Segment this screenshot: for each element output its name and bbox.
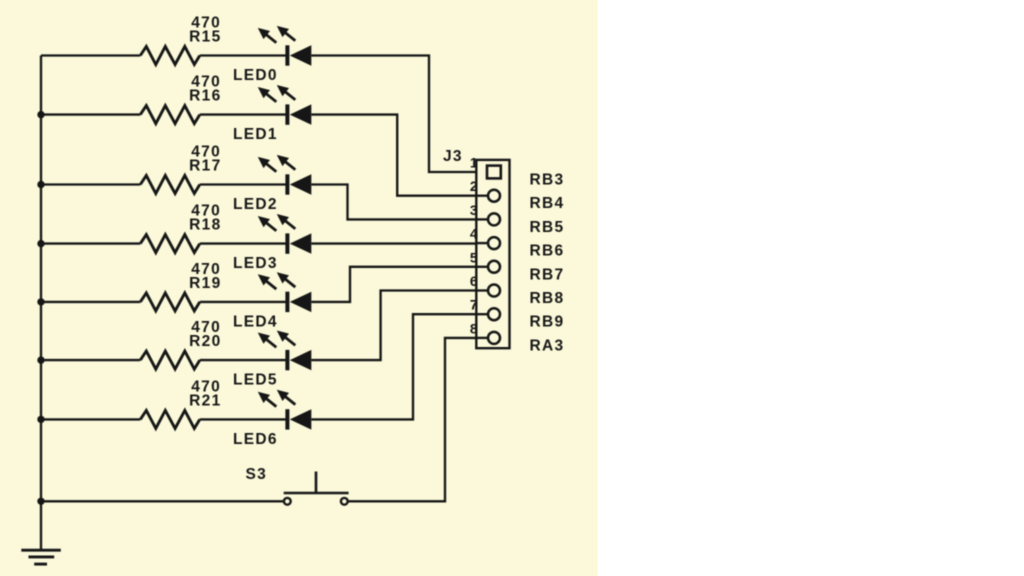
- junction dot row 3: [37, 181, 44, 188]
- wire: bus to R21 (row 7): [41, 418, 140, 420]
- wire stub pin 3: [476, 218, 488, 220]
- resistor R17: [140, 176, 200, 194]
- J3 pin 7 (round pad): [488, 308, 500, 320]
- svg-text:2: 2: [470, 178, 479, 194]
- wire: bus to switch S3: [41, 500, 283, 502]
- svg-text:LED6: LED6: [233, 431, 278, 448]
- junction dot switch row: [37, 498, 44, 505]
- svg-text:RB5: RB5: [530, 219, 565, 236]
- svg-text:LED4: LED4: [233, 313, 278, 330]
- J3 pin 2 (round pad): [488, 190, 500, 202]
- resistor R15: [140, 47, 200, 65]
- wire: S3 to J3 pin 8: [348, 338, 477, 501]
- svg-text:RB9: RB9: [530, 314, 565, 331]
- wire: R21 to LED6: [200, 418, 288, 420]
- svg-text:R18: R18: [189, 217, 221, 234]
- wire: LED6 to J3 pin 7: [311, 314, 476, 419]
- LED LED2: [285, 174, 289, 194]
- wire: left vertical bus: [40, 56, 42, 551]
- wire: R19 to LED4: [200, 301, 288, 303]
- wire: LED5 to J3 pin 6: [311, 291, 476, 361]
- svg-text:1: 1: [470, 155, 479, 171]
- LED LED5: [285, 350, 289, 370]
- wire: LED4 to J3 pin 5: [311, 267, 476, 302]
- svg-text:LED5: LED5: [233, 372, 278, 389]
- junction dot row 4: [37, 240, 44, 247]
- LED LED0: [285, 45, 289, 65]
- LED LED3: [285, 233, 289, 253]
- svg-text:RB8: RB8: [530, 290, 565, 307]
- wire: bus to R16 (row 2): [41, 113, 140, 115]
- svg-text:RA3: RA3: [530, 337, 565, 354]
- wire: R18 to LED3: [200, 242, 288, 244]
- wire: LED3 to J3 pin 4: [311, 242, 476, 244]
- LED LED6: [285, 409, 289, 429]
- wire: bus to R19 (row 5): [41, 301, 140, 303]
- J3 pin 1 (square pad): [487, 166, 501, 179]
- svg-text:7: 7: [470, 297, 479, 313]
- svg-text:LED3: LED3: [233, 255, 278, 272]
- wire: bus to R17 (row 3): [41, 183, 140, 185]
- wire stub pin 4: [476, 242, 488, 244]
- schematic sheet background: [0, 0, 598, 576]
- wire: R17 to LED2: [200, 183, 288, 185]
- svg-text:R21: R21: [189, 392, 221, 409]
- resistor R19: [140, 293, 200, 311]
- wire: R20 to LED5: [200, 359, 288, 361]
- svg-text:J3: J3: [443, 148, 463, 165]
- J3 pin 4 (round pad): [488, 237, 500, 249]
- resistor R20: [140, 351, 200, 369]
- junction dot row 2: [37, 111, 44, 118]
- svg-text:LED0: LED0: [233, 67, 278, 84]
- junction dot row 6: [37, 356, 44, 363]
- svg-text:R16: R16: [189, 88, 221, 105]
- svg-text:3: 3: [470, 202, 479, 218]
- svg-text:5: 5: [470, 249, 479, 265]
- wire: R16 to LED1: [200, 113, 288, 115]
- resistor R18: [140, 235, 200, 253]
- J3 pin 8 (round pad): [488, 332, 500, 344]
- wire: LED2 to J3 pin 3: [311, 185, 476, 220]
- LED LED1: [285, 104, 289, 124]
- ground symbol: [21, 549, 61, 552]
- wire stub pin 2: [476, 195, 488, 197]
- svg-text:RB3: RB3: [530, 172, 565, 189]
- resistor R21: [140, 410, 200, 428]
- svg-text:RB4: RB4: [530, 195, 565, 212]
- J3 pin 3 (round pad): [488, 213, 500, 225]
- svg-text:LED1: LED1: [233, 126, 278, 143]
- svg-text:R15: R15: [189, 29, 221, 46]
- switch S3: [284, 498, 291, 505]
- svg-text:8: 8: [470, 320, 479, 336]
- junction dot row 5: [37, 298, 44, 305]
- svg-text:RB6: RB6: [530, 243, 565, 260]
- wire: bus to R15 (row 1): [41, 54, 140, 56]
- svg-text:R17: R17: [189, 158, 221, 175]
- wire stub pin 5: [476, 266, 488, 268]
- connector J3 body: [476, 160, 509, 348]
- svg-text:R20: R20: [189, 333, 221, 350]
- resistor R16: [140, 106, 200, 124]
- junction dot row 7: [37, 416, 44, 423]
- J3 pin 5 (round pad): [488, 261, 500, 273]
- svg-text:R19: R19: [189, 275, 221, 292]
- J3 pin 6 (round pad): [488, 285, 500, 297]
- svg-text:S3: S3: [246, 466, 268, 483]
- wire stub pin 6: [476, 289, 488, 291]
- svg-text:6: 6: [470, 273, 479, 289]
- wire: bus to R20 (row 6): [41, 359, 140, 361]
- svg-text:4: 4: [470, 226, 479, 242]
- wire: LED1 to J3 pin 2: [311, 115, 476, 196]
- wire: R15 to LED0: [200, 54, 288, 56]
- wire: LED0 to J3 pin 1: [311, 56, 476, 173]
- LED LED4: [285, 292, 289, 312]
- wire: bus to R18 (row 4): [41, 242, 140, 244]
- svg-text:LED2: LED2: [233, 196, 278, 213]
- wire stub pin 7: [476, 313, 488, 315]
- wire stub pin 8: [476, 337, 488, 339]
- svg-text:RB7: RB7: [530, 266, 565, 283]
